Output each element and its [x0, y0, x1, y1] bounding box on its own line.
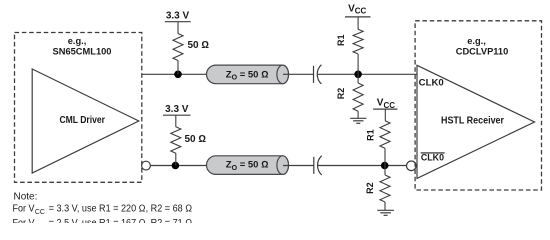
- svg-text:= 3.3 V, use R1 = 220 Ω, R2 =: = 3.3 V, use R1 = 220 Ω, R2 = 68 Ω: [49, 204, 193, 215]
- svg-text:R1: R1: [366, 129, 376, 141]
- svg-text:CC: CC: [35, 221, 46, 223]
- power rail VCC (top): [345, 3, 371, 29]
- resistor R1 (top): [353, 29, 363, 74]
- receiver triangle (HSTL Receiver): [417, 65, 535, 178]
- note line 3: [13, 218, 193, 230]
- svg-text:e.g.,: e.g.,: [467, 36, 486, 46]
- capacitor C1 (AC coupling, top): [314, 65, 322, 84]
- svg-text:R1: R1: [336, 35, 346, 47]
- svg-text:HSTL Receiver: HSTL Receiver: [441, 116, 504, 127]
- driver inverted output bubble: [142, 161, 151, 170]
- resistor R1 (bottom): [380, 121, 390, 166]
- svg-text:3.3 V: 3.3 V: [166, 11, 190, 22]
- pin label CLK0 (inverted, overline): [421, 153, 445, 163]
- svg-text:CLK0: CLK0: [421, 153, 444, 163]
- wire: Z1 to capacitor C1: [283, 73, 314, 75]
- wire: driver OUT+ to transmission line Z1: [142, 73, 207, 75]
- wire: Z2 to capacitor C2: [283, 165, 314, 167]
- power rail VCC (bottom): [373, 98, 397, 121]
- svg-text:50 Ω: 50 Ω: [185, 134, 207, 145]
- wire: driver OUT- to transmission line Z2: [150, 165, 206, 167]
- svg-text:= 2.5 V, use R1 = 167 Ω, R2 =: = 2.5 V, use R1 = 167 Ω, R2 = 71 Ω: [49, 218, 193, 223]
- svg-text:Note:: Note:: [14, 192, 38, 203]
- svg-text:SN65CML100: SN65CML100: [53, 47, 112, 57]
- label "e.g., CDCLVP110": [456, 36, 509, 57]
- node: junction dot (OUT+ / 50 ohm pullup): [174, 71, 182, 79]
- ground (bottom R2): [377, 210, 394, 215]
- svg-text:CLK0: CLK0: [419, 78, 444, 88]
- node: junction dot (OUT- / 50 ohm pullup): [172, 162, 180, 170]
- receiver inverted input bubble: [407, 161, 417, 171]
- svg-text:e.g.,: e.g.,: [68, 36, 87, 46]
- svg-text:R2: R2: [365, 182, 375, 194]
- power rail 3.3V (top): [165, 11, 191, 34]
- resistor 50 ohm (top pull-up): [173, 34, 183, 75]
- driver triangle (CML Driver): [32, 69, 139, 173]
- power rail 3.3V (bottom): [163, 104, 191, 127]
- svg-text:For V: For V: [13, 218, 35, 223]
- wire: C1 to node A (receiver CLK0 net): [318, 73, 417, 75]
- IC box U2 (HSTL receiver, dashed outline): [415, 21, 541, 190]
- IC box U1 (CML driver, dashed outline): [15, 33, 142, 183]
- transmission line Z2 (Zo = 50 ohm): [207, 156, 289, 175]
- resistor R2 (top): [353, 74, 363, 118]
- svg-text:For V: For V: [13, 204, 35, 215]
- resistor 50 ohm (bottom pull-up): [171, 127, 181, 166]
- svg-text:CDCLVP110: CDCLVP110: [456, 47, 509, 57]
- svg-text:50 Ω: 50 Ω: [188, 40, 210, 51]
- resistor R2 (bottom): [380, 166, 390, 211]
- wire: C2 to node B (receiver CLK0- net): [318, 165, 407, 167]
- node: junction dot (R1/R2 divider, bottom): [381, 162, 389, 170]
- note line 2: [13, 204, 193, 216]
- svg-text:R2: R2: [336, 88, 346, 100]
- svg-text:CC: CC: [35, 207, 46, 216]
- label "e.g., SN65CML100": [53, 36, 112, 57]
- svg-text:CML Driver: CML Driver: [59, 115, 105, 126]
- node: junction dot (R1/R2 divider, top): [354, 71, 362, 79]
- ground (top R2): [350, 118, 366, 123]
- capacitor C2 (AC coupling, bottom): [314, 156, 322, 175]
- transmission line Z1 (Zo = 50 ohm): [207, 65, 289, 84]
- svg-text:3.3 V: 3.3 V: [165, 104, 189, 115]
